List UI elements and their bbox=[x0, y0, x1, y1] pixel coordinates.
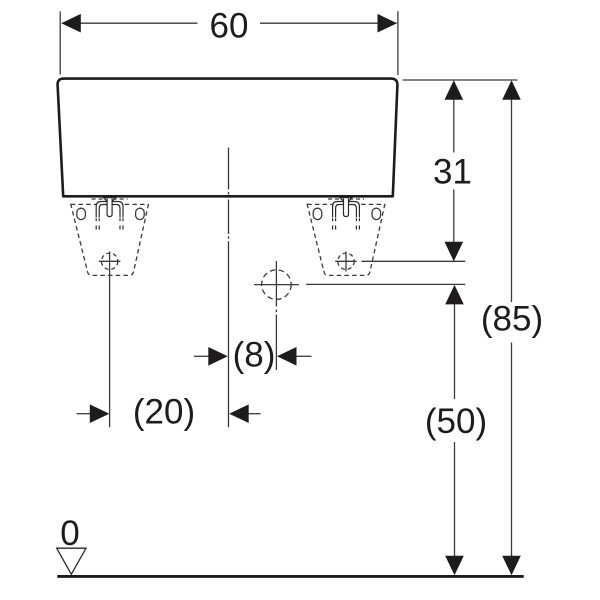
left bracket hole dashed circle bbox=[101, 253, 117, 269]
left clip wedge bbox=[104, 198, 116, 202]
svg-text:(8): (8) bbox=[233, 336, 276, 375]
right clip inner body bbox=[336, 205, 357, 218]
drain cross horizontal bbox=[254, 284, 299, 286]
dim 20 right tail bbox=[248, 413, 261, 415]
right bracket dashed outline bbox=[307, 204, 385, 275]
basin centerline bbox=[228, 148, 230, 428]
dim 60 line right part bbox=[260, 22, 397, 24]
dim 50 top arrow bbox=[445, 285, 464, 305]
dim 50 bottom arrow bbox=[445, 556, 464, 576]
dim 85 line upper bbox=[511, 99, 513, 302]
left clip outer body bbox=[96, 202, 123, 218]
dim 8 left arrow bbox=[208, 347, 228, 366]
bracket hole reference line bbox=[362, 260, 466, 262]
left bracket slot right bbox=[136, 208, 145, 219]
dim 60 left extension line bbox=[59, 11, 61, 74]
left clip leg dashes bbox=[96, 218, 123, 229]
dim 50 line lower bbox=[454, 442, 456, 557]
dim 60 right extension line bbox=[397, 11, 399, 75]
svg-text:60: 60 bbox=[210, 6, 249, 45]
dim 31 bottom arrow bbox=[445, 242, 464, 261]
dim 60 left arrow bbox=[61, 14, 81, 33]
drain reference line bbox=[306, 283, 465, 285]
drain dashed circle bbox=[262, 270, 292, 300]
right clip hidden dashed line bbox=[328, 198, 364, 200]
dim 50 line upper bbox=[454, 304, 456, 399]
basin outline bbox=[58, 79, 398, 197]
dim 20 left tail bbox=[77, 413, 91, 415]
dim 8 right arrow bbox=[277, 347, 297, 366]
dim 20 left arrow bbox=[90, 404, 110, 423]
left bracket dashed outline bbox=[71, 204, 149, 275]
right clip notch bbox=[344, 198, 349, 216]
dim 31 line upper bbox=[453, 99, 455, 153]
left clip inner body bbox=[99, 205, 120, 218]
left bracket hole cross horizontal bbox=[99, 260, 121, 262]
right bracket slot left bbox=[313, 208, 322, 219]
left clip hidden dashed line bbox=[92, 198, 128, 200]
left bracket hole cross vertical bbox=[109, 252, 111, 428]
right bracket hole cross vertical bbox=[345, 252, 347, 272]
svg-text:(85): (85) bbox=[481, 300, 543, 339]
svg-text:(50): (50) bbox=[425, 402, 487, 441]
dim 20 right arrow bbox=[229, 404, 249, 423]
dim 60 line left part bbox=[62, 22, 198, 24]
datum triangle bbox=[57, 548, 86, 574]
dim 85 line lower bbox=[511, 343, 513, 558]
dim 8 left tail bbox=[194, 355, 209, 357]
right bracket slot right bbox=[372, 208, 381, 219]
right clip outer body bbox=[333, 202, 360, 218]
left clip notch bbox=[107, 198, 112, 216]
floor line bbox=[57, 575, 523, 578]
right bracket hole cross horizontal bbox=[335, 260, 357, 262]
dim 85 top arrow bbox=[502, 80, 521, 100]
dim 8 right tail bbox=[296, 355, 312, 357]
dim 31 top arrow bbox=[445, 80, 464, 100]
right clip leg dashes bbox=[333, 218, 360, 229]
svg-text:0: 0 bbox=[60, 514, 79, 553]
dim 85 bottom arrow bbox=[502, 556, 521, 576]
drain cross vertical (centerline) bbox=[275, 261, 277, 370]
right bracket hole dashed circle bbox=[338, 253, 354, 269]
right clip wedge bbox=[340, 198, 352, 202]
dim 31 line lower bbox=[453, 190, 455, 243]
left bracket slot left bbox=[77, 208, 86, 219]
svg-text:(20): (20) bbox=[133, 393, 195, 432]
dim 60 right arrow bbox=[378, 14, 398, 33]
svg-text:31: 31 bbox=[433, 153, 472, 192]
top right extension line bbox=[403, 79, 518, 81]
